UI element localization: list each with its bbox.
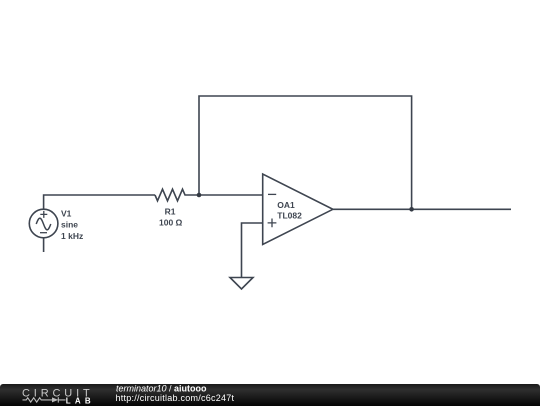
svg-text:TL082: TL082 (277, 210, 302, 220)
svg-text:V1: V1 (61, 208, 72, 218)
svg-text:R1: R1 (165, 207, 176, 217)
svg-text:terminator10 / aiutooo: terminator10 / aiutooo (116, 384, 207, 393)
svg-text:LAB: LAB (66, 396, 95, 405)
svg-text:http://circuitlab.com/c6c247t: http://circuitlab.com/c6c247t (116, 393, 235, 403)
svg-text:sine: sine (61, 220, 78, 230)
svg-text:1 kHz: 1 kHz (61, 231, 83, 241)
svg-text:OA1: OA1 (277, 200, 295, 210)
svg-text:100 Ω: 100 Ω (159, 218, 183, 228)
